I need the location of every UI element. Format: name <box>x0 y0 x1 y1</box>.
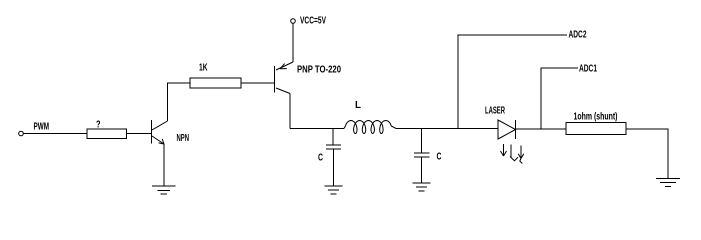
wire R? to Q1 base <box>127 133 152 135</box>
svg-text:C: C <box>318 153 323 164</box>
ground at Q1 emitter <box>152 186 176 194</box>
terminal PWM input <box>19 131 24 136</box>
transistor Q1 NPN <box>152 120 168 144</box>
svg-text:PWM: PWM <box>34 122 50 133</box>
svg-text:1ohm (shunt): 1ohm (shunt) <box>574 112 618 123</box>
transistor Q2 PNP <box>275 62 294 94</box>
resistor R? <box>87 129 127 139</box>
svg-text:PNP TO-220: PNP TO-220 <box>297 65 341 76</box>
inductor L <box>344 121 396 134</box>
wire Q2 collector down <box>289 94 291 129</box>
wire inductor to laser <box>396 128 498 130</box>
wire VCC to Q2 emitter <box>292 24 294 63</box>
wire laser to shunt <box>516 128 567 130</box>
wire shunt to ground <box>626 129 668 179</box>
laser diode D1 <box>498 120 516 139</box>
svg-text:C: C <box>437 152 442 163</box>
node ADC2 tap <box>458 35 567 129</box>
wire Q1 collector to 1K <box>168 83 191 121</box>
svg-text:L: L <box>355 100 361 111</box>
resistor 1ohm shunt <box>566 123 626 135</box>
resistor 1K <box>190 78 241 88</box>
svg-text:NPN: NPN <box>177 133 190 144</box>
node ADC1 tap <box>541 68 578 129</box>
wire Q1 emitter to ground <box>163 144 165 186</box>
wire PWM to R? <box>24 133 88 135</box>
svg-text:LASER: LASER <box>485 106 505 117</box>
laser emission arrows <box>501 144 524 164</box>
terminal VCC <box>291 19 296 24</box>
wire Q2 collector to inductor <box>290 128 344 130</box>
svg-text:VCC=5V: VCC=5V <box>300 16 326 27</box>
svg-text:1K: 1K <box>199 63 208 74</box>
ground at C1 <box>325 186 343 194</box>
capacitor C1 <box>326 129 341 187</box>
ground at C2 <box>413 183 431 191</box>
capacitor C2 <box>414 129 430 184</box>
ground at output <box>656 179 680 187</box>
wire 1K to Q2 base <box>241 82 274 84</box>
svg-text:ADC2: ADC2 <box>569 30 587 41</box>
svg-text:ADC1: ADC1 <box>579 64 597 75</box>
svg-text:?: ? <box>96 120 101 131</box>
